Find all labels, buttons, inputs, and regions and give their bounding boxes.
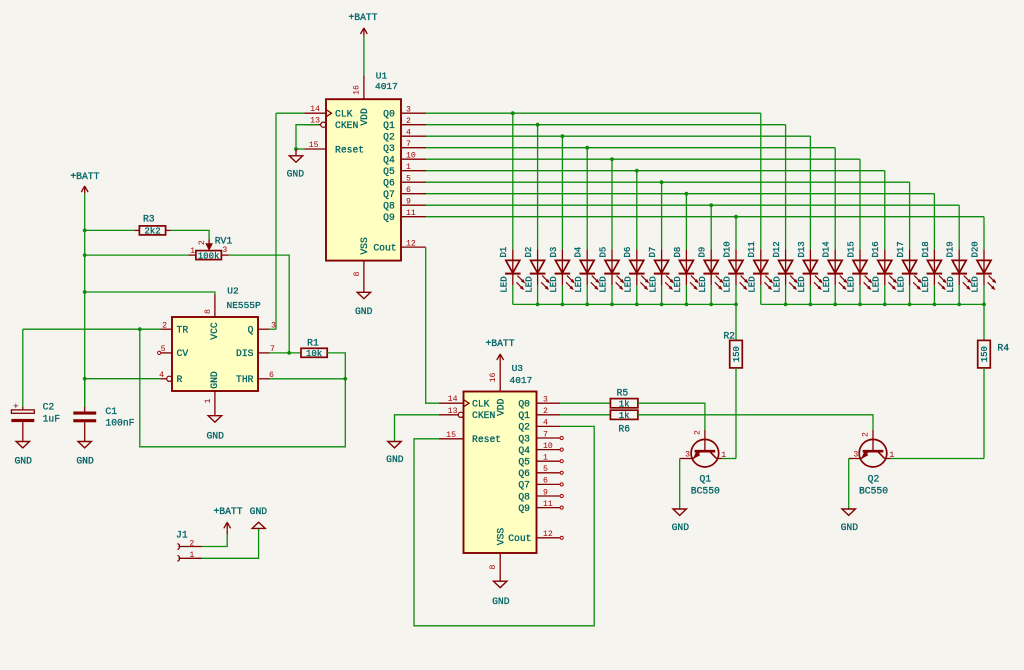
svg-text:9: 9 bbox=[406, 198, 411, 207]
wire U2 Q to U1 CLK vertical bbox=[275, 113, 277, 329]
pin 4 Q2 of U3 bbox=[537, 419, 561, 428]
LED D2 bbox=[524, 247, 549, 293]
LED D4 bbox=[574, 247, 599, 293]
svg-text:10: 10 bbox=[406, 152, 416, 161]
svg-text:2: 2 bbox=[543, 407, 548, 416]
LED D20 bbox=[970, 241, 995, 292]
resistor R1 bbox=[301, 338, 327, 360]
wire Q2 drop to D3 bbox=[561, 136, 563, 249]
wire Q4 drop to D15 bbox=[859, 159, 861, 249]
pin 3 Q0 of U1 bbox=[401, 106, 426, 115]
svg-text:J1: J1 bbox=[176, 529, 188, 540]
wire U3 Q0 to R5 bbox=[560, 402, 610, 404]
svg-text:D18: D18 bbox=[921, 241, 931, 257]
svg-text:Q5: Q5 bbox=[518, 457, 530, 468]
svg-text:D7: D7 bbox=[648, 247, 658, 258]
svg-text:Q8: Q8 bbox=[383, 201, 395, 212]
LED D15 bbox=[846, 241, 871, 292]
node rail at U2 VCC bbox=[83, 290, 87, 294]
svg-text:11: 11 bbox=[406, 209, 416, 218]
svg-text:R5: R5 bbox=[617, 387, 629, 398]
pin 4 Q2 of U1 bbox=[401, 129, 426, 138]
svg-text:1k: 1k bbox=[619, 399, 630, 409]
node THR junction bbox=[343, 377, 347, 381]
svg-text:Q7: Q7 bbox=[518, 480, 530, 491]
wire Q3 drop to D4 bbox=[586, 148, 588, 250]
svg-text:5: 5 bbox=[406, 175, 411, 184]
value 4017 of U3 bbox=[510, 375, 533, 386]
wire D19 cathode to rail bbox=[958, 285, 960, 304]
svg-text:LED: LED bbox=[574, 276, 584, 292]
pin 8 VSS of U3 bbox=[489, 553, 500, 581]
wire U1 CKEN bbox=[296, 125, 319, 149]
node rail at R3 bbox=[83, 229, 87, 233]
wire Q1 collector bbox=[722, 458, 736, 460]
pin 13 CKEN of U3 bbox=[439, 407, 463, 418]
LED D3 bbox=[549, 247, 574, 293]
svg-text:R3: R3 bbox=[143, 214, 155, 225]
svg-text:Reset: Reset bbox=[335, 144, 364, 155]
pin 16 VDD of U3 bbox=[489, 368, 500, 392]
node rail at D18 bbox=[933, 303, 937, 307]
svg-text:1: 1 bbox=[543, 454, 548, 463]
pin 6 THR of U2 bbox=[258, 371, 274, 380]
wire D15 cathode to rail bbox=[859, 285, 861, 304]
wire D8 cathode to rail bbox=[685, 285, 687, 304]
LED D6 bbox=[623, 247, 648, 293]
wire Q1 emitter to ground bbox=[679, 459, 681, 510]
designator U2 bbox=[227, 285, 239, 296]
svg-text:LED: LED bbox=[599, 276, 609, 292]
svg-text:LED: LED bbox=[797, 276, 807, 292]
svg-text:LED: LED bbox=[723, 276, 733, 292]
node Q1 at D2 bbox=[536, 123, 540, 127]
svg-text:1: 1 bbox=[406, 163, 411, 172]
resistor R3 bbox=[134, 214, 171, 237]
ground up at J1 bbox=[250, 506, 268, 529]
svg-text:D1: D1 bbox=[499, 247, 509, 258]
IC U2 NE555P body bbox=[172, 317, 258, 391]
svg-text:2: 2 bbox=[693, 430, 702, 435]
svg-text:R: R bbox=[177, 374, 183, 385]
node rail at D10 bbox=[734, 303, 738, 307]
node rail at D19 bbox=[957, 303, 961, 307]
wire Q3 bus horizontal bbox=[426, 147, 835, 149]
svg-text:D11: D11 bbox=[747, 241, 757, 257]
svg-text:Q2: Q2 bbox=[383, 132, 395, 143]
node Q0 at D1 bbox=[511, 111, 515, 115]
LED D7 bbox=[648, 247, 673, 293]
LED D10 bbox=[722, 241, 747, 292]
wire Q5 bus horizontal bbox=[426, 170, 885, 172]
svg-text:2: 2 bbox=[198, 240, 207, 245]
node Q7 at D8 bbox=[685, 192, 689, 196]
ground below U2 bbox=[206, 416, 224, 442]
svg-text:D16: D16 bbox=[871, 241, 881, 257]
wire TR left bbox=[23, 328, 161, 330]
pin 3 Q0 of U3 bbox=[537, 396, 561, 405]
svg-text:2: 2 bbox=[406, 117, 411, 126]
wire D11 cathode to rail bbox=[760, 285, 762, 304]
svg-text:D17: D17 bbox=[896, 241, 906, 257]
power +BATT at U3 bbox=[485, 338, 514, 361]
svg-text:LED: LED bbox=[872, 276, 882, 292]
wire R1 to THR node bbox=[327, 353, 345, 379]
svg-text:Q9: Q9 bbox=[518, 503, 530, 514]
wire D7 cathode to rail bbox=[661, 285, 663, 304]
svg-text:LED: LED bbox=[822, 276, 832, 292]
svg-text:Q7: Q7 bbox=[383, 189, 395, 200]
wire D12 cathode to rail bbox=[785, 285, 787, 304]
LED D1 bbox=[499, 247, 524, 293]
node Q2 at D3 bbox=[561, 134, 565, 138]
svg-text:14: 14 bbox=[310, 105, 320, 114]
ground below U1 bbox=[355, 292, 373, 317]
pin 7 Q3 of U3 bbox=[537, 430, 564, 439]
pin 2 TR of U2 bbox=[161, 321, 173, 330]
capacitor C2 polarized bbox=[11, 401, 60, 442]
svg-text:8: 8 bbox=[489, 564, 498, 569]
svg-text:Q0: Q0 bbox=[383, 109, 395, 120]
LED D17 bbox=[896, 241, 921, 292]
potentiometer RV1 bbox=[188, 235, 232, 261]
svg-text:C1: C1 bbox=[105, 406, 117, 417]
pin 10 Q4 of U1 bbox=[401, 152, 426, 161]
svg-text:4: 4 bbox=[543, 419, 548, 428]
LED D18 bbox=[921, 241, 946, 292]
wire DIS to R1 bbox=[270, 352, 302, 354]
wire U1 Cout to U3 CLK bbox=[426, 247, 439, 403]
svg-text:LED: LED bbox=[648, 276, 658, 292]
svg-text:+BATT: +BATT bbox=[348, 12, 377, 23]
wire Q8 drop to D9 bbox=[710, 205, 712, 249]
svg-text:4017: 4017 bbox=[375, 81, 398, 92]
svg-text:Q0: Q0 bbox=[518, 399, 530, 410]
svg-text:10k: 10k bbox=[306, 349, 322, 359]
node Q5 at D6 bbox=[635, 169, 639, 173]
svg-text:VDD: VDD bbox=[496, 398, 507, 416]
pin 6 Q7 of U3 bbox=[537, 477, 564, 486]
value NE555P of U2 bbox=[227, 300, 262, 311]
wire R4 down bbox=[983, 368, 985, 459]
wire R2 to Q1 collector bbox=[735, 368, 737, 459]
svg-text:VSS: VSS bbox=[496, 528, 507, 546]
svg-text:D2: D2 bbox=[524, 247, 534, 258]
pin 8 VSS of U1 bbox=[353, 261, 364, 293]
resistor R4 bbox=[978, 340, 1010, 368]
wire D2 cathode to rail bbox=[537, 285, 539, 304]
svg-text:Q1: Q1 bbox=[518, 410, 530, 421]
node rail at D12 bbox=[784, 303, 788, 307]
node rail at D6 bbox=[635, 303, 639, 307]
svg-text:D19: D19 bbox=[946, 241, 956, 257]
svg-text:CLK: CLK bbox=[335, 109, 353, 120]
wire U1 Reset bbox=[296, 148, 305, 150]
node DIS junction bbox=[287, 351, 291, 355]
svg-text:2: 2 bbox=[862, 432, 871, 437]
svg-text:Q1: Q1 bbox=[383, 120, 395, 131]
svg-text:3: 3 bbox=[685, 451, 690, 460]
LED D11 bbox=[747, 241, 772, 292]
svg-text:3: 3 bbox=[853, 451, 858, 460]
svg-text:1uF: 1uF bbox=[43, 413, 61, 424]
svg-text:2k2: 2k2 bbox=[144, 227, 160, 237]
wire Q1 bus horizontal bbox=[426, 124, 786, 126]
svg-text:LED: LED bbox=[624, 276, 634, 292]
ground below C1 bbox=[76, 442, 94, 467]
wire Q3 drop to D14 bbox=[834, 148, 836, 250]
wire Q6 bus horizontal bbox=[426, 181, 910, 183]
ground at Q1 bbox=[672, 509, 690, 533]
svg-text:15: 15 bbox=[446, 431, 456, 440]
wire R3 to RV1 wiper bbox=[171, 230, 209, 239]
svg-text:7: 7 bbox=[406, 140, 411, 149]
svg-text:7: 7 bbox=[543, 430, 548, 439]
capacitor C1 bbox=[73, 406, 134, 442]
wire Q0 drop to D1 bbox=[512, 113, 514, 249]
wire TR to C2 bbox=[22, 329, 24, 407]
transistor Q1 BC550 bbox=[680, 430, 727, 496]
wire R6 to Q2 base bbox=[638, 415, 873, 430]
svg-text:NE555P: NE555P bbox=[227, 300, 262, 311]
pin 14 CLK of U1 bbox=[305, 105, 327, 114]
svg-text:+BATT: +BATT bbox=[485, 338, 514, 349]
wire +BATT to U1 VDD bbox=[363, 36, 365, 76]
LED D16 bbox=[871, 241, 896, 292]
svg-text:100k: 100k bbox=[198, 251, 220, 261]
node rail at D16 bbox=[883, 303, 887, 307]
wire left LED rail bbox=[513, 303, 736, 305]
pin 1 Q5 of U3 bbox=[537, 454, 564, 463]
svg-text:DIS: DIS bbox=[236, 348, 254, 359]
svg-text:1: 1 bbox=[889, 451, 894, 460]
wire D17 cathode to rail bbox=[909, 285, 911, 304]
svg-text:150: 150 bbox=[732, 346, 742, 362]
pin 2 Q1 of U3 bbox=[537, 407, 561, 416]
svg-text:VCC: VCC bbox=[209, 322, 220, 340]
svg-text:GND: GND bbox=[250, 506, 268, 517]
LED D5 bbox=[598, 247, 623, 293]
pin 2 Q1 of U1 bbox=[401, 117, 426, 126]
node rail at D7 bbox=[660, 303, 664, 307]
svg-text:12: 12 bbox=[406, 239, 416, 248]
svg-text:D6: D6 bbox=[623, 247, 633, 258]
svg-text:Q3: Q3 bbox=[383, 143, 395, 154]
pin 14 CLK of U3 bbox=[439, 395, 464, 404]
svg-text:D9: D9 bbox=[698, 247, 708, 258]
wire D14 cathode to rail bbox=[834, 285, 836, 304]
wire Q9 drop to D20 bbox=[983, 217, 985, 250]
pin 9 Q8 of U3 bbox=[537, 488, 564, 497]
wire D5 cathode to rail bbox=[611, 285, 613, 304]
wire Q5 drop to D6 bbox=[636, 171, 638, 250]
svg-text:U3: U3 bbox=[512, 363, 524, 374]
ground at U3 CKEN bbox=[386, 442, 404, 466]
pin 12 Cout of U3 bbox=[537, 530, 564, 539]
svg-text:Q4: Q4 bbox=[383, 155, 395, 166]
svg-text:Reset: Reset bbox=[472, 434, 501, 445]
ground below C2 bbox=[14, 442, 32, 467]
wire D13 cathode to rail bbox=[809, 285, 811, 304]
wire Q6 drop to D17 bbox=[909, 182, 911, 249]
svg-text:CLK: CLK bbox=[472, 399, 490, 410]
svg-text:D5: D5 bbox=[598, 247, 608, 258]
node Q6 at D7 bbox=[660, 180, 664, 184]
svg-text:3: 3 bbox=[222, 246, 227, 255]
svg-text:15: 15 bbox=[309, 141, 319, 150]
svg-text:D4: D4 bbox=[574, 247, 584, 258]
svg-text:4017: 4017 bbox=[510, 375, 533, 386]
pin 12 Cout of U1 bbox=[401, 239, 426, 248]
svg-text:D10: D10 bbox=[722, 241, 732, 257]
svg-text:1: 1 bbox=[189, 551, 194, 560]
svg-text:Q: Q bbox=[248, 325, 254, 336]
wire U3 Reset to Q2 loop bbox=[414, 426, 594, 625]
pin 1 GND of U2 bbox=[204, 391, 215, 416]
pin 10 Q4 of U3 bbox=[537, 442, 564, 451]
node TR junction bbox=[138, 327, 142, 331]
ground below U3 bbox=[492, 581, 510, 607]
svg-text:GND: GND bbox=[386, 454, 404, 465]
svg-text:14: 14 bbox=[448, 395, 458, 404]
svg-text:2: 2 bbox=[189, 539, 194, 548]
wire D18 cathode to rail bbox=[933, 285, 935, 304]
svg-text:100nF: 100nF bbox=[105, 417, 134, 428]
node rail at D3 bbox=[561, 303, 565, 307]
pin 4 R of U2 bbox=[159, 371, 172, 381]
wire Q0 drop to D11 bbox=[760, 113, 762, 249]
resistor R5 bbox=[610, 387, 638, 409]
svg-text:D13: D13 bbox=[797, 241, 807, 257]
svg-text:D3: D3 bbox=[549, 247, 559, 258]
svg-text:LED: LED bbox=[946, 276, 956, 292]
wire Q1 drop to D2 bbox=[537, 125, 539, 250]
svg-text:LED: LED bbox=[896, 276, 906, 292]
resistor R6 bbox=[610, 410, 638, 434]
wire Q4 drop to D5 bbox=[611, 159, 613, 249]
svg-text:+: + bbox=[13, 401, 19, 412]
svg-text:CV: CV bbox=[177, 348, 189, 359]
wire D10 cathode to rail bbox=[735, 285, 737, 304]
svg-text:TR: TR bbox=[177, 325, 189, 336]
wire U3 Q1 to R6 bbox=[560, 414, 610, 416]
wire Q7 drop to D8 bbox=[685, 194, 687, 250]
node Q8 at D9 bbox=[709, 203, 713, 207]
wire rail to R2 bbox=[735, 304, 737, 340]
svg-text:R6: R6 bbox=[618, 423, 630, 434]
svg-text:CKEN: CKEN bbox=[335, 120, 358, 131]
wire Q1 drop to D12 bbox=[785, 125, 787, 250]
wire THR bbox=[270, 378, 346, 380]
ground at Q2 bbox=[841, 509, 859, 533]
svg-text:D20: D20 bbox=[970, 241, 980, 257]
svg-text:LED: LED bbox=[500, 276, 510, 292]
svg-text:2: 2 bbox=[162, 321, 167, 330]
svg-text:GND: GND bbox=[672, 522, 690, 533]
designator U3 bbox=[512, 363, 524, 374]
IC U1 4017 body bbox=[326, 99, 401, 260]
svg-text:R4: R4 bbox=[997, 343, 1009, 354]
pin 11 Q9 of U3 bbox=[537, 500, 564, 509]
svg-text:GND: GND bbox=[76, 455, 94, 466]
wire R4 to Q2 collector bbox=[890, 458, 984, 460]
wire U1 CLK bbox=[276, 112, 305, 114]
svg-text:D14: D14 bbox=[822, 241, 832, 257]
wire TR-THR feedback loop bbox=[140, 329, 345, 447]
wire Q6 drop to D7 bbox=[661, 182, 663, 249]
svg-text:Q3: Q3 bbox=[518, 433, 530, 444]
svg-text:5: 5 bbox=[161, 345, 166, 354]
node Q3 at D4 bbox=[585, 146, 589, 150]
node rail at U2 R pin bbox=[83, 377, 87, 381]
pin 3 Q of U2 bbox=[258, 321, 276, 330]
svg-text:LED: LED bbox=[847, 276, 857, 292]
svg-text:1k: 1k bbox=[619, 411, 630, 421]
wire U3 CKEN to ground bbox=[395, 415, 440, 441]
svg-text:6: 6 bbox=[406, 186, 411, 195]
LED D14 bbox=[822, 241, 847, 292]
svg-text:Q6: Q6 bbox=[383, 178, 395, 189]
svg-text:5: 5 bbox=[543, 465, 548, 474]
power +BATT at U1 bbox=[348, 12, 377, 36]
wire rail to R4 bbox=[983, 304, 985, 340]
svg-text:11: 11 bbox=[543, 500, 553, 509]
svg-text:+BATT: +BATT bbox=[70, 171, 99, 182]
svg-text:BC550: BC550 bbox=[859, 485, 888, 496]
wire right LED rail bbox=[761, 303, 984, 305]
connector J1 bbox=[176, 529, 202, 561]
wire rail to U2 VCC bbox=[85, 292, 215, 295]
wire Q2 drop to D13 bbox=[809, 136, 811, 249]
LED D12 bbox=[772, 241, 797, 292]
LED D9 bbox=[698, 247, 723, 293]
node Q4 at D5 bbox=[610, 157, 614, 161]
wire D9 cathode to rail bbox=[710, 285, 712, 304]
svg-text:8: 8 bbox=[204, 309, 213, 314]
wire +BATT to U3 VDD bbox=[499, 362, 501, 369]
svg-text:Q4: Q4 bbox=[518, 445, 530, 456]
pin 6 Q7 of U1 bbox=[401, 186, 426, 195]
svg-text:Cout: Cout bbox=[508, 533, 531, 544]
svg-text:LED: LED bbox=[549, 276, 559, 292]
pin 9 Q8 of U1 bbox=[401, 198, 426, 207]
pin 5 Q6 of U3 bbox=[537, 465, 564, 474]
wire R pin to rail bbox=[85, 378, 161, 380]
svg-text:U1: U1 bbox=[376, 71, 388, 82]
ground at U1 Reset bbox=[287, 149, 305, 179]
svg-text:13: 13 bbox=[448, 407, 458, 416]
svg-text:16: 16 bbox=[353, 85, 362, 95]
wire Q9 bus horizontal bbox=[426, 216, 984, 218]
svg-text:Q2: Q2 bbox=[518, 422, 530, 433]
wire Q8 bus horizontal bbox=[426, 204, 959, 206]
value 4017 of U1 bbox=[375, 81, 398, 92]
wire D1 cathode to rail bbox=[512, 285, 514, 304]
node Q9 at D10 bbox=[734, 215, 738, 219]
wire Q7 drop to D18 bbox=[933, 194, 935, 250]
power +BATT left rail bbox=[70, 171, 99, 194]
power +BATT at J1 bbox=[213, 506, 242, 534]
svg-text:150: 150 bbox=[980, 346, 990, 362]
svg-text:Q1: Q1 bbox=[699, 473, 711, 484]
svg-text:Q9: Q9 bbox=[383, 212, 395, 223]
designator U1 bbox=[376, 71, 388, 82]
svg-text:LED: LED bbox=[772, 276, 782, 292]
svg-text:LED: LED bbox=[748, 276, 758, 292]
svg-text:GND: GND bbox=[209, 371, 220, 389]
svg-text:R1: R1 bbox=[307, 338, 319, 349]
wire rail to C1 bbox=[84, 379, 86, 407]
